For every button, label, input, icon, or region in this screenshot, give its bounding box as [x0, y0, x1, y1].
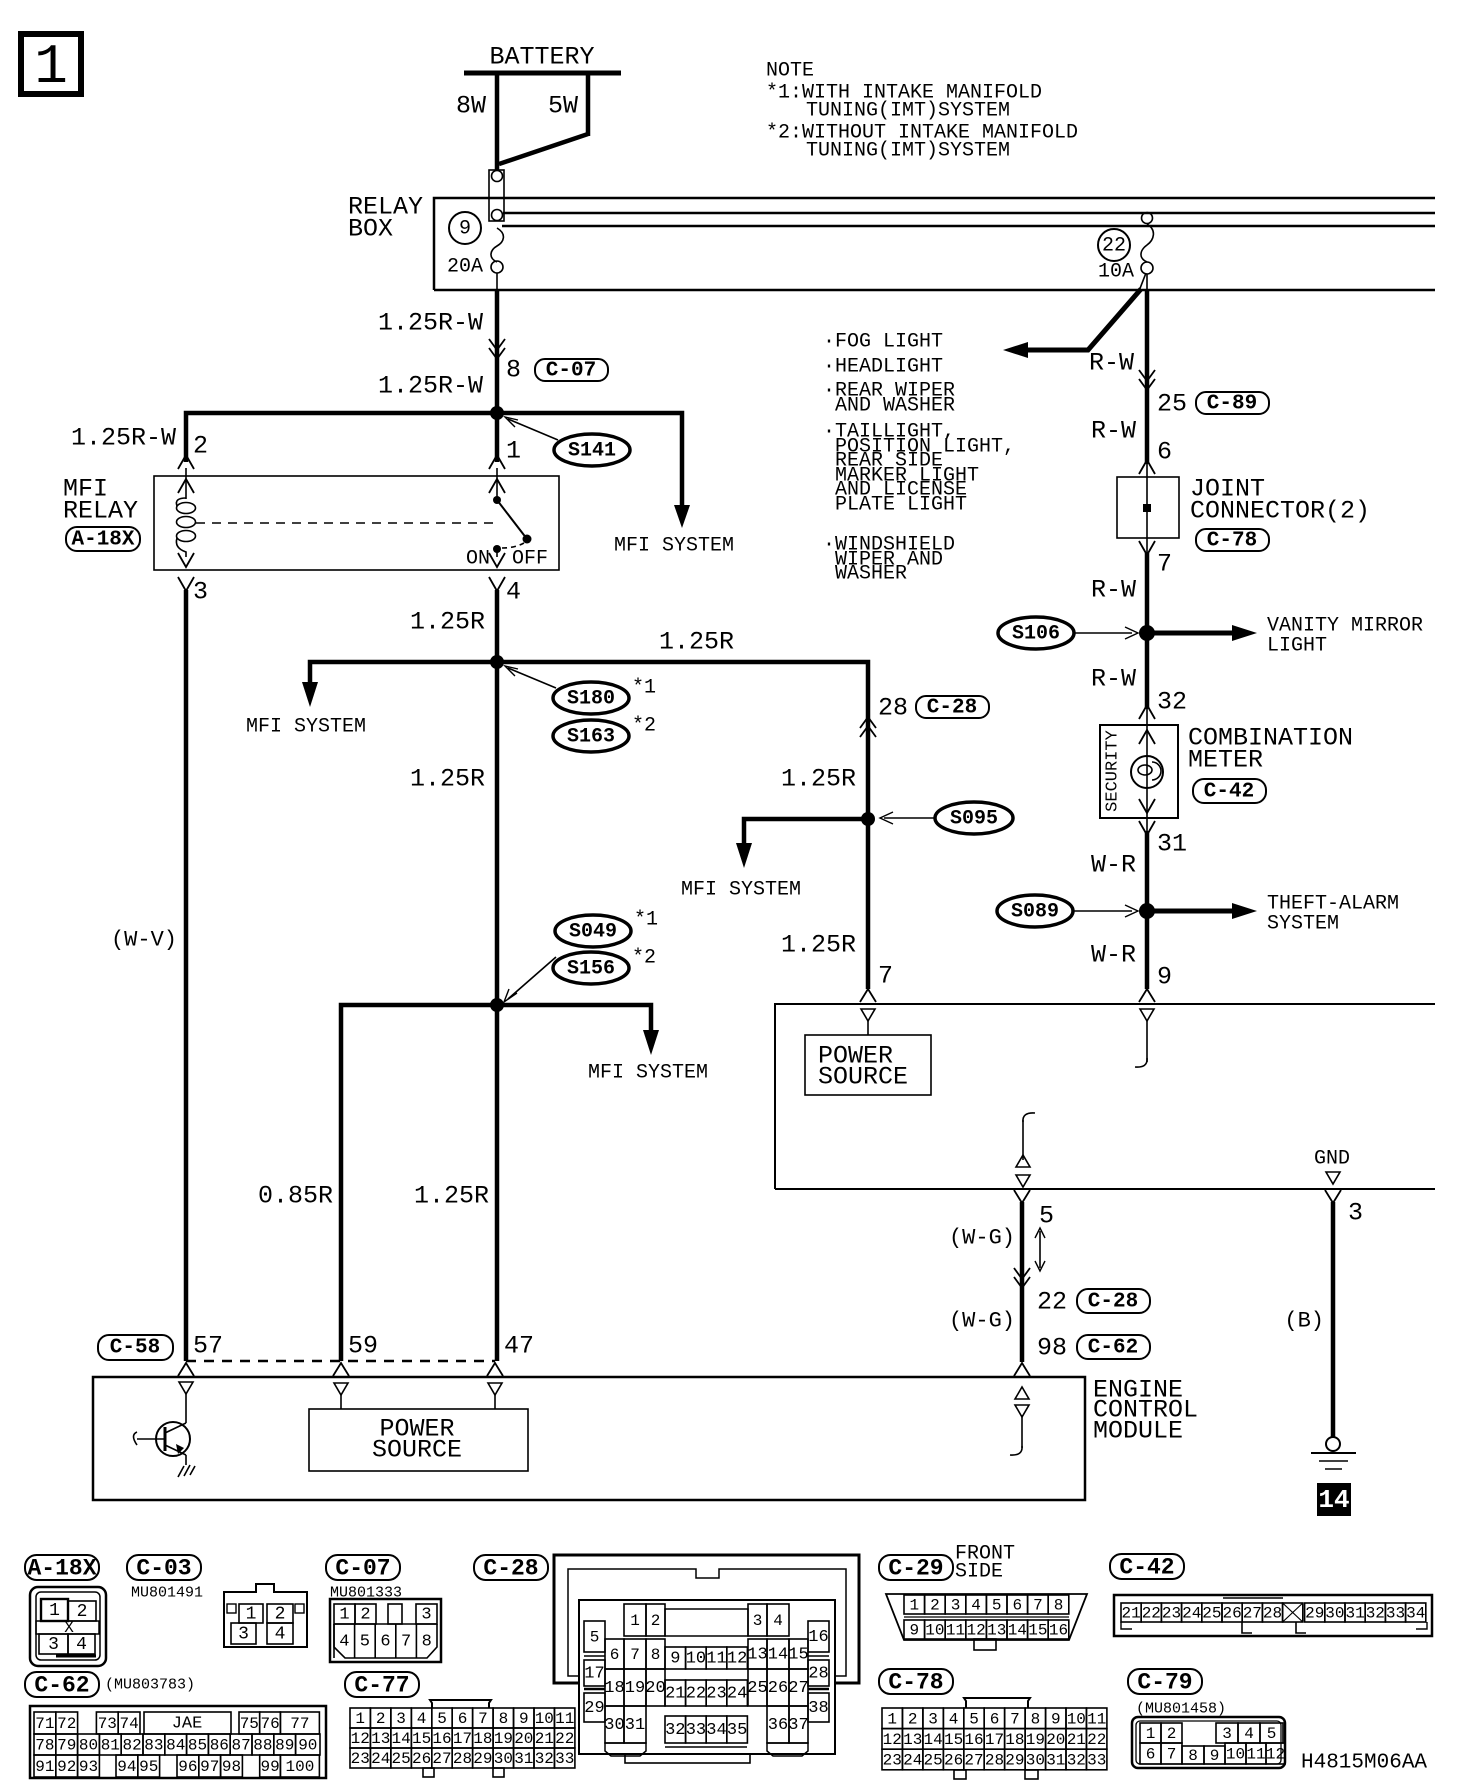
svg-text:20A: 20A: [447, 256, 483, 279]
svg-text:72: 72: [57, 1715, 76, 1733]
svg-text:1.25R-W: 1.25R-W: [378, 372, 483, 401]
svg-text:10: 10: [535, 1710, 554, 1728]
connector C-03 pinout: [127, 1555, 307, 1647]
svg-text:(W-G): (W-G): [949, 1226, 1015, 1251]
svg-text:CONNECTOR(2): CONNECTOR(2): [1190, 497, 1370, 526]
svg-text:2: 2: [651, 1612, 661, 1630]
wire 5W battery feed: [499, 73, 588, 164]
splice S163 label: [553, 715, 656, 753]
svg-text:22: 22: [1087, 1731, 1106, 1749]
svg-text:AND WASHER: AND WASHER: [835, 395, 955, 418]
svg-text:27: 27: [964, 1752, 983, 1770]
svg-text:8: 8: [1054, 1597, 1064, 1615]
svg-text:BOX: BOX: [348, 215, 393, 244]
svg-text:18: 18: [473, 1730, 492, 1748]
svg-text:87: 87: [231, 1737, 250, 1755]
svg-text:82: 82: [122, 1737, 141, 1755]
connector C-07 pinout: [326, 1555, 441, 1662]
svg-text:30: 30: [1026, 1752, 1045, 1770]
svg-text:30: 30: [494, 1750, 513, 1768]
connector A-18X pinout: [25, 1555, 106, 1666]
svg-text:32: 32: [1366, 1605, 1385, 1623]
svg-text:37: 37: [788, 1716, 808, 1735]
svg-text:1: 1: [355, 1710, 365, 1728]
svg-text:C-28: C-28: [927, 697, 977, 720]
svg-text:10A: 10A: [1098, 261, 1134, 284]
page number box 1: [21, 34, 81, 99]
wire 1.25R node4 to ECM pin 47: [414, 1005, 497, 1361]
svg-text:11: 11: [946, 1622, 965, 1640]
svg-text:(B): (B): [1284, 1309, 1324, 1334]
svg-text:NOTE: NOTE: [766, 60, 814, 83]
combination meter C-42: [1100, 724, 1353, 819]
svg-text:5: 5: [1267, 1725, 1277, 1743]
svg-text:8: 8: [1031, 1710, 1041, 1728]
wire 1.25R node2 to node4: [410, 662, 497, 1005]
svg-text:SECURITY: SECURITY: [1104, 730, 1123, 812]
svg-text:26: 26: [1222, 1605, 1241, 1623]
svg-text:3: 3: [1222, 1725, 1232, 1743]
fusible link: [489, 170, 504, 221]
svg-text:1.25R: 1.25R: [781, 765, 856, 794]
svg-text:22: 22: [555, 1730, 574, 1748]
svg-text:1.25R-W: 1.25R-W: [378, 309, 483, 338]
svg-text:4: 4: [76, 1635, 87, 1655]
svg-text:3: 3: [396, 1710, 406, 1728]
svg-text:10: 10: [925, 1622, 944, 1640]
svg-text:MODULE: MODULE: [1093, 1417, 1183, 1446]
svg-text:25: 25: [391, 1750, 410, 1768]
splice S156 label: [504, 947, 656, 1003]
svg-text:31: 31: [1345, 1605, 1364, 1623]
svg-text:6: 6: [1157, 438, 1172, 467]
svg-text:*1: *1: [634, 909, 658, 932]
svg-text:S106: S106: [1012, 623, 1060, 646]
node3 S095 junction: [861, 812, 875, 826]
svg-text:7: 7: [1167, 1746, 1177, 1764]
ECM pin 57 triangle: [179, 1382, 193, 1423]
svg-text:4: 4: [506, 578, 521, 607]
wire MFI system lower branch: [497, 1005, 708, 1085]
svg-text:2: 2: [193, 432, 208, 461]
svg-text:76: 76: [260, 1715, 279, 1733]
svg-text:2: 2: [1167, 1725, 1177, 1743]
svg-text:98: 98: [1037, 1334, 1067, 1363]
svg-text:GND: GND: [1314, 1148, 1350, 1171]
svg-text:14: 14: [1008, 1622, 1027, 1640]
svg-text:77: 77: [290, 1715, 309, 1733]
svg-text:MFI SYSTEM: MFI SYSTEM: [681, 879, 801, 902]
svg-text:33: 33: [1386, 1605, 1405, 1623]
svg-text:ON: ON: [466, 548, 490, 571]
svg-text:1: 1: [1146, 1725, 1156, 1743]
svg-text:3: 3: [1348, 1199, 1363, 1228]
svg-text:81: 81: [101, 1737, 120, 1755]
svg-text:30: 30: [604, 1716, 624, 1735]
svg-text:13: 13: [903, 1731, 922, 1749]
svg-text:47: 47: [504, 1332, 534, 1361]
svg-text:92: 92: [57, 1758, 76, 1776]
splice S095 label: [880, 802, 1013, 834]
svg-text:31: 31: [514, 1750, 533, 1768]
svg-text:25: 25: [1202, 1605, 1221, 1623]
svg-text:PLATE LIGHT: PLATE LIGHT: [835, 494, 967, 517]
svg-text:84: 84: [166, 1737, 185, 1755]
meter pin 31: [1139, 821, 1187, 859]
svg-text:9: 9: [1157, 963, 1172, 992]
svg-text:26: 26: [944, 1752, 963, 1770]
svg-text:91: 91: [35, 1758, 54, 1776]
wire 1.25R node2 right to C-28: [497, 628, 868, 990]
svg-text:W-R: W-R: [1091, 941, 1136, 970]
svg-text:29: 29: [1305, 1605, 1324, 1623]
svg-text:(W-V): (W-V): [111, 928, 177, 953]
svg-text:3: 3: [951, 1597, 961, 1615]
note text: [766, 60, 1078, 163]
battery B1: [464, 43, 621, 74]
wire MFI system middle branch: [681, 819, 868, 902]
svg-text:*1: *1: [632, 677, 656, 700]
svg-text:5: 5: [1039, 1202, 1054, 1231]
svg-text:C-28: C-28: [483, 1556, 538, 1582]
svg-text:11: 11: [1246, 1746, 1265, 1764]
svg-text:C-78: C-78: [888, 1670, 943, 1696]
svg-text:32: 32: [665, 1721, 685, 1740]
svg-text:R-W: R-W: [1089, 349, 1134, 378]
transistor Q in ECM: [134, 1422, 196, 1477]
svg-text:11: 11: [1087, 1710, 1106, 1728]
svg-text:3: 3: [421, 1606, 431, 1625]
svg-text:0.85R: 0.85R: [258, 1182, 333, 1211]
svg-text:1: 1: [339, 1606, 349, 1625]
svg-text:S180: S180: [567, 688, 615, 711]
pin 9 stub in power source: [1135, 1009, 1154, 1067]
svg-text:25: 25: [747, 1679, 767, 1698]
fuse 9 20A: [447, 212, 503, 290]
svg-text:C-58: C-58: [110, 1337, 160, 1360]
svg-text:20: 20: [1046, 1731, 1065, 1749]
svg-text:MFI SYSTEM: MFI SYSTEM: [246, 716, 366, 739]
svg-text:SYSTEM: SYSTEM: [1267, 913, 1339, 936]
wire 1.25R relay pin4 to node2: [410, 590, 497, 662]
svg-text:19: 19: [1026, 1731, 1045, 1749]
svg-text:LIGHT: LIGHT: [1267, 635, 1327, 658]
svg-text:12: 12: [351, 1730, 370, 1748]
svg-text:14: 14: [1318, 1485, 1349, 1515]
wire R-W label 2: [1091, 417, 1172, 475]
svg-text:23: 23: [706, 1685, 726, 1704]
svg-text:W-R: W-R: [1091, 851, 1136, 880]
svg-text:C-28: C-28: [1088, 1291, 1138, 1314]
svg-text:3: 3: [753, 1612, 763, 1630]
svg-text:BATTERY: BATTERY: [489, 43, 594, 72]
svg-text:14: 14: [923, 1731, 942, 1749]
svg-text:1: 1: [34, 35, 68, 99]
GND pin 3 label: [1314, 1148, 1350, 1185]
svg-text:SOURCE: SOURCE: [818, 1063, 908, 1092]
wire W-R label 2: [1091, 941, 1172, 1003]
svg-text:(MU801458): (MU801458): [1136, 1701, 1226, 1718]
svg-text:1.25R: 1.25R: [414, 1182, 489, 1211]
svg-text:89: 89: [275, 1737, 294, 1755]
svg-text:1: 1: [506, 437, 521, 466]
svg-text:C-62: C-62: [1088, 1337, 1138, 1360]
svg-text:WASHER: WASHER: [835, 563, 907, 586]
svg-text:9: 9: [670, 1650, 680, 1669]
wire MFI system left branch: [246, 662, 497, 739]
svg-text:3: 3: [928, 1710, 938, 1728]
svg-text:22: 22: [1142, 1605, 1161, 1623]
svg-text:31: 31: [1157, 830, 1187, 859]
relay coil: [176, 498, 195, 557]
svg-text:11: 11: [555, 1710, 574, 1728]
svg-text:28: 28: [985, 1752, 1004, 1770]
svg-text:36: 36: [768, 1716, 788, 1735]
svg-text:1: 1: [630, 1612, 640, 1630]
svg-text:17: 17: [453, 1730, 472, 1748]
svg-text:15: 15: [1028, 1622, 1047, 1640]
svg-text:5: 5: [969, 1710, 979, 1728]
svg-text:18: 18: [604, 1679, 624, 1698]
wire R-W fuse22 down: [1145, 290, 1150, 464]
splice S049 label: [555, 909, 658, 948]
svg-text:1.25R-W: 1.25R-W: [71, 424, 176, 453]
arrow vanity mirror light: [1147, 615, 1423, 658]
svg-text:15: 15: [412, 1730, 431, 1748]
svg-text:15: 15: [944, 1731, 963, 1749]
wire R-W label 4: [1091, 665, 1187, 720]
svg-text:7: 7: [878, 962, 893, 991]
svg-text:TUNING(IMT)SYSTEM: TUNING(IMT)SYSTEM: [806, 140, 1010, 163]
svg-text:28: 28: [808, 1665, 828, 1684]
svg-text:24: 24: [903, 1752, 922, 1770]
node S106 junction: [1139, 625, 1155, 641]
svg-text:18: 18: [1005, 1731, 1024, 1749]
svg-text:6: 6: [1146, 1746, 1156, 1764]
svg-text:5: 5: [590, 1629, 600, 1647]
svg-text:6: 6: [380, 1633, 390, 1652]
svg-text:30: 30: [1325, 1605, 1344, 1623]
svg-text:57: 57: [193, 1332, 223, 1361]
svg-text:10: 10: [686, 1650, 706, 1669]
svg-text:4: 4: [275, 1625, 286, 1645]
MFI relay pin 2 terminal: [178, 455, 194, 499]
svg-text:2: 2: [376, 1710, 386, 1728]
svg-text:14: 14: [391, 1730, 410, 1748]
svg-text:4: 4: [971, 1597, 981, 1615]
connector C-28 pinout: [474, 1555, 859, 1763]
svg-text:C-07: C-07: [546, 360, 596, 383]
svg-text:14: 14: [768, 1646, 788, 1665]
MFI relay pin 3 terminal: [178, 553, 208, 607]
svg-text:1: 1: [887, 1710, 897, 1728]
svg-text:38: 38: [808, 1699, 828, 1718]
svg-text:34: 34: [1406, 1605, 1425, 1623]
svg-text:99: 99: [260, 1758, 279, 1776]
ground symbol: [1311, 1437, 1356, 1469]
svg-text:22: 22: [686, 1685, 706, 1704]
svg-text:SOURCE: SOURCE: [372, 1436, 462, 1465]
svg-text:8: 8: [506, 356, 521, 385]
svg-text:(W-G): (W-G): [949, 1309, 1015, 1334]
svg-text:25: 25: [923, 1752, 942, 1770]
node2 junction: [490, 655, 504, 669]
svg-text:9: 9: [459, 218, 471, 241]
svg-text:1: 1: [246, 1605, 257, 1625]
svg-text:23: 23: [883, 1752, 902, 1770]
svg-text:29: 29: [1005, 1752, 1024, 1770]
svg-text:32: 32: [1067, 1752, 1086, 1770]
ECM pin 47 triangle: [488, 1383, 502, 1409]
svg-text:13: 13: [371, 1730, 390, 1748]
svg-text:17: 17: [985, 1731, 1004, 1749]
svg-text:JAE: JAE: [172, 1715, 203, 1734]
fuse 22 10A: [1098, 213, 1153, 291]
svg-text:2: 2: [275, 1605, 286, 1625]
relay contact dashed link: [196, 522, 500, 524]
svg-text:34: 34: [706, 1721, 726, 1740]
svg-text:13: 13: [747, 1646, 767, 1665]
svg-text:C-78: C-78: [1207, 530, 1257, 553]
svg-text:96: 96: [178, 1758, 197, 1776]
svg-text:28: 28: [1263, 1605, 1282, 1623]
svg-text:21: 21: [1121, 1605, 1140, 1623]
svg-text:3: 3: [238, 1625, 249, 1645]
svg-text:2: 2: [930, 1597, 940, 1615]
svg-text:20: 20: [645, 1679, 665, 1698]
svg-text:R-W: R-W: [1091, 417, 1136, 446]
svg-text:S049: S049: [569, 921, 617, 944]
wire 1.25R-W to MFI relay pin 1: [497, 413, 521, 466]
svg-text:15: 15: [788, 1646, 808, 1665]
connector C-58 pins 57 59 47: [98, 1332, 534, 1377]
svg-text:16: 16: [964, 1731, 983, 1749]
MFI relay pin 1 terminal: [489, 455, 505, 497]
svg-text:1.25R: 1.25R: [781, 931, 856, 960]
svg-text:32: 32: [1157, 688, 1187, 717]
connector C-42 pinout: [1110, 1554, 1432, 1636]
svg-text:4: 4: [949, 1710, 959, 1728]
relay box: [348, 193, 1435, 291]
svg-text:7: 7: [1157, 550, 1172, 579]
svg-text:MU801491: MU801491: [131, 1585, 203, 1602]
svg-text:MFI SYSTEM: MFI SYSTEM: [588, 1062, 708, 1085]
svg-text:9: 9: [909, 1622, 919, 1640]
connector C-07 pin 8 crossing: [489, 339, 608, 385]
svg-text:4: 4: [773, 1612, 783, 1630]
svg-text:31: 31: [1046, 1752, 1065, 1770]
svg-text:·HEADLIGHT: ·HEADLIGHT: [823, 356, 943, 379]
svg-text:27: 27: [432, 1750, 451, 1768]
svg-text:78: 78: [35, 1737, 54, 1755]
svg-text:59: 59: [348, 1332, 378, 1361]
svg-text:26: 26: [768, 1679, 788, 1698]
svg-text:21: 21: [535, 1730, 554, 1748]
relay switch: [466, 496, 548, 571]
svg-text:S156: S156: [567, 958, 615, 981]
wire 8W battery feed: [456, 73, 497, 170]
svg-text:MFI SYSTEM: MFI SYSTEM: [614, 535, 734, 558]
svg-text:*2: *2: [632, 715, 656, 738]
svg-text:OFF: OFF: [512, 548, 548, 571]
svg-text:28: 28: [453, 1750, 472, 1768]
svg-text:16: 16: [432, 1730, 451, 1748]
splice S180 label: [505, 666, 656, 714]
svg-text:*2: *2: [632, 947, 656, 970]
svg-text:73: 73: [98, 1715, 117, 1733]
svg-text:C-77: C-77: [354, 1673, 409, 1699]
svg-text:4: 4: [1244, 1725, 1254, 1743]
svg-text:1: 1: [909, 1597, 919, 1615]
svg-text:4: 4: [417, 1710, 427, 1728]
joint connector C-78: [1117, 475, 1370, 579]
svg-text:21: 21: [1067, 1731, 1086, 1749]
svg-text:A-18X: A-18X: [27, 1556, 96, 1582]
svg-text:1.25R: 1.25R: [410, 608, 485, 637]
engine control module box: [93, 1376, 1198, 1501]
page ref 14 box: [1317, 1483, 1351, 1516]
svg-text:12: 12: [883, 1731, 902, 1749]
svg-text:12: 12: [727, 1650, 747, 1669]
svg-text:85: 85: [188, 1737, 207, 1755]
svg-text:RELAY: RELAY: [63, 497, 138, 526]
svg-text:19: 19: [625, 1679, 645, 1698]
svg-text:8W: 8W: [456, 92, 486, 121]
load list: [823, 331, 1015, 586]
connector C-79 pinout: [1128, 1669, 1285, 1768]
svg-text:24: 24: [1182, 1605, 1201, 1623]
connector C-29 pinout: [879, 1543, 1087, 1651]
svg-text:83: 83: [144, 1737, 163, 1755]
svg-text:23: 23: [351, 1750, 370, 1768]
wire 1.25R-W fuse9 to node S141: [378, 290, 497, 413]
power source label box: [805, 1035, 931, 1095]
svg-text:33: 33: [555, 1750, 574, 1768]
svg-text:TUNING(IMT)SYSTEM: TUNING(IMT)SYSTEM: [806, 100, 1010, 123]
svg-text:27: 27: [1243, 1605, 1262, 1623]
svg-text:12: 12: [966, 1622, 985, 1640]
svg-text:7: 7: [1033, 1597, 1043, 1615]
svg-text:16: 16: [808, 1628, 828, 1647]
wire B gnd pin 3: [1284, 1190, 1363, 1437]
svg-text:C-29: C-29: [888, 1556, 943, 1582]
svg-text:74: 74: [119, 1715, 138, 1733]
svg-text:C-62: C-62: [34, 1673, 89, 1699]
svg-text:5: 5: [992, 1597, 1002, 1615]
arrow theft-alarm system: [1147, 893, 1399, 936]
svg-text:20: 20: [514, 1730, 533, 1748]
svg-text:23: 23: [1162, 1605, 1181, 1623]
svg-text:95: 95: [139, 1758, 158, 1776]
connector C-89 pin 25 crossing: [1139, 370, 1269, 419]
splice S089 label: [997, 895, 1138, 927]
svg-text:SIDE: SIDE: [955, 1561, 1003, 1584]
wire W-V relay pin3 to ECM pin 57: [111, 590, 186, 1361]
svg-text:11: 11: [706, 1650, 726, 1669]
svg-text:21: 21: [665, 1685, 685, 1704]
svg-text:S141: S141: [568, 440, 616, 463]
svg-text:1.25R: 1.25R: [659, 628, 734, 657]
svg-text:5: 5: [437, 1710, 447, 1728]
svg-text:METER: METER: [1188, 746, 1263, 775]
node S141 junction: [490, 406, 504, 420]
svg-text:S089: S089: [1011, 901, 1059, 924]
svg-text:71: 71: [35, 1715, 54, 1733]
node4 junction: [490, 998, 504, 1012]
svg-text:9: 9: [519, 1710, 529, 1728]
svg-text:C-07: C-07: [335, 1556, 390, 1582]
svg-text:10: 10: [1067, 1710, 1086, 1728]
